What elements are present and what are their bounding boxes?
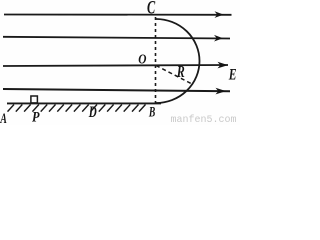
svg-text:O: O: [138, 52, 146, 67]
svg-text:R: R: [176, 62, 185, 81]
svg-text:manfen5.com: manfen5.com: [171, 114, 237, 125]
field line 1: [4, 11, 232, 18]
ground line: [7, 102, 161, 104]
dashed vertical line C-B: [155, 17, 157, 103]
block P on ground: [31, 96, 38, 103]
svg-text:B: B: [148, 105, 155, 121]
ground hatching: [8, 105, 146, 112]
svg-text:D: D: [88, 104, 97, 121]
field line 2: [3, 35, 230, 42]
svg-text:C: C: [147, 0, 156, 19]
svg-text:A: A: [0, 111, 7, 125]
dashed radius O-R: [156, 66, 191, 84]
svg-text:P: P: [32, 110, 40, 126]
field line 3: [3, 62, 228, 69]
svg-text:E: E: [228, 66, 237, 83]
field line 4: [3, 88, 230, 95]
semicircle trajectory: [156, 19, 200, 103]
